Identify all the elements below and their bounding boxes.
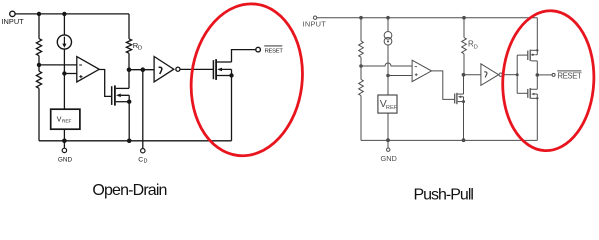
- node: push-pull output junction: [536, 73, 540, 77]
- node: plus input junction (right): [386, 74, 390, 78]
- transistor Q5 (push-pull NMOS): [527, 89, 529, 98]
- VREF box U3 (left): [51, 109, 80, 129]
- svg-text:D: D: [144, 159, 148, 165]
- wire: minus input wire (divider tap to comparator): [39, 64, 77, 66]
- wire: minus input wire with hop over VREF line: [361, 63, 412, 66]
- node: Q3 source/body junction: [462, 100, 465, 103]
- label RESET with overline (right): [557, 70, 581, 72]
- svg-text:GND: GND: [58, 157, 73, 164]
- current source I1 (left, circle with down arrow): [57, 35, 71, 49]
- wire: Q2 drain up to RESET terminal: [232, 50, 256, 62]
- svg-text:REF: REF: [62, 119, 72, 125]
- svg-text:GND: GND: [380, 154, 396, 163]
- wire: current source upper lead: [63, 14, 65, 35]
- node: Q2 source/body junction: [229, 73, 233, 77]
- svg-text:D: D: [138, 46, 142, 52]
- label CD: [138, 156, 147, 164]
- wire: Q4 source up to top rail: [536, 18, 538, 51]
- node: Q5 source/body junction: [536, 97, 538, 99]
- wire: current source to VREF box (right): [387, 45, 389, 95]
- terminal RESET (left): [256, 47, 261, 52]
- wire: gate bus vertical: [516, 55, 518, 93]
- label GND (left): [58, 157, 73, 164]
- wire: inverter output to gate bus: [503, 74, 518, 76]
- node: RD / Q1 drain junction: [127, 67, 132, 72]
- transistor Q4 (push-pull PMOS): [527, 51, 529, 60]
- node: rail/current-source junction: [62, 12, 66, 16]
- wire: divider mid: [38, 56, 40, 71]
- node: rail/divider junction (right): [359, 16, 363, 20]
- resistor RD (left): [126, 39, 131, 53]
- node: Q1 source/body junction: [127, 100, 131, 104]
- node: rail/divider junction: [37, 12, 41, 16]
- node: CD branch junction: [141, 67, 146, 72]
- wire: divider mid (right): [360, 57, 362, 79]
- wire: plus input wire to comparator (right): [388, 75, 412, 77]
- node: GND junction: [62, 139, 67, 144]
- wire: divider lower lead to bottom rail: [38, 88, 40, 141]
- wire: Q1 drain to delay node: [128, 70, 130, 89]
- input terminal INPUT (right): [313, 16, 316, 19]
- wire: divider lower lead to bottom rail (right): [360, 96, 362, 141]
- wire: VREF box to bottom rail: [63, 129, 65, 141]
- resistor R1 (left divider top): [36, 39, 41, 56]
- transistor Q2 (open-drain output NMOS): [212, 60, 214, 79]
- wire: Q3 source to bottom rail: [463, 102, 465, 141]
- wire: Q5 source to bottom rail: [536, 98, 538, 140]
- wire: plus input wire to comparator: [64, 73, 76, 75]
- node: RD / Q3 drain junction (right): [462, 73, 466, 77]
- VREF box U6 (right): [378, 95, 397, 113]
- resistor R3 (right divider top): [359, 41, 364, 57]
- svg-text:RESET: RESET: [265, 48, 284, 54]
- resistor RD (right): [462, 38, 467, 54]
- svg-text:Push-Pull: Push-Pull: [413, 186, 473, 203]
- wire: GND stub (right): [387, 140, 389, 148]
- wire: top rail (left): [15, 13, 129, 15]
- terminal RESET (right): [552, 73, 555, 76]
- wire: bottom rail (left): [39, 140, 232, 142]
- label GND (right): [380, 154, 396, 163]
- resistor R4 (right divider bottom): [359, 79, 364, 95]
- svg-text:Open-Drain: Open-Drain: [92, 182, 166, 199]
- wire: PMOS gate wire: [517, 54, 527, 56]
- op-amp U4 (right comparator): [412, 60, 431, 81]
- svg-text:INPUT: INPUT: [2, 17, 25, 26]
- node: Q1 source rail junction: [127, 139, 132, 144]
- wire: RD upper lead (right): [463, 18, 465, 38]
- svg-text:REF: REF: [386, 105, 398, 111]
- svg-text:C: C: [138, 156, 143, 163]
- node: GND junction (right): [386, 138, 390, 142]
- node: divider tap junction: [37, 63, 41, 67]
- node: rail/RD junction (right): [462, 16, 466, 20]
- wire: VREF box to bottom rail (right): [387, 113, 389, 140]
- red ellipse (left, around open-drain output FET): [183, 0, 311, 162]
- svg-text:INPUT: INPUT: [303, 20, 327, 29]
- wire: current source upper lead (right): [387, 18, 389, 32]
- red ellipse (right, around push-pull output FETs): [499, 8, 597, 153]
- wire: bottom rail (right): [361, 139, 537, 141]
- node: plus input junction: [62, 71, 66, 75]
- node: gate bus junction: [516, 73, 519, 76]
- label RESET with overline (left): [264, 45, 282, 47]
- transistor Q1 (CD discharge NMOS): [111, 86, 113, 105]
- wire: Q4 drain down to output node: [531, 61, 537, 75]
- terminal CD: [141, 149, 145, 153]
- wire: GND stub: [63, 141, 65, 148]
- label INPUT (left): [2, 17, 25, 26]
- wire: RD lower lead to delay node: [128, 53, 130, 69]
- label RD (right): [468, 39, 478, 50]
- wire: Q1 source to bottom rail: [128, 102, 130, 141]
- wire: RD upper lead from top rail: [128, 14, 130, 39]
- wire: top rail (right): [317, 17, 537, 19]
- wire: delay node to inverter input (right): [464, 74, 481, 76]
- svg-text:D: D: [474, 44, 478, 50]
- wire: divider upper lead (right): [360, 18, 362, 41]
- input terminal INPUT (left): [10, 11, 15, 16]
- op-amp U1 (left comparator): [77, 57, 99, 82]
- node: Q3 source rail junction: [462, 138, 466, 142]
- wire: CD branch down to CD terminal: [142, 70, 144, 149]
- wire: comparator output to Q3 gate: [432, 71, 455, 100]
- node: divider tap junction (right): [359, 64, 363, 68]
- wire: comparator output to Q1 gate: [99, 70, 111, 97]
- wire: Q2 source to bottom rail: [231, 76, 233, 141]
- label RD (left): [133, 41, 142, 52]
- resistor R2 (left divider bottom): [36, 71, 41, 88]
- inverter U5 (right, with hysteresis): [481, 64, 499, 86]
- wire: inverter output to Q2 gate: [180, 68, 213, 70]
- wire: current source to VREF box: [63, 49, 65, 109]
- current source I2 (right, double circle with dot): [384, 31, 392, 39]
- node: Q4 source/body junction: [536, 49, 538, 51]
- node: rail/current-source junction (right): [386, 16, 390, 20]
- label INPUT (right): [303, 20, 327, 29]
- terminal GND (right): [387, 148, 390, 151]
- wire: output node to RESET terminal (right): [537, 74, 552, 76]
- inverter U2 (left, with hysteresis): [154, 57, 174, 82]
- wire: Q3 drain to delay node: [463, 75, 465, 94]
- wire: divider upper lead: [38, 14, 40, 39]
- svg-text:RESET: RESET: [557, 72, 582, 81]
- wire: delay node to inverter input: [129, 69, 154, 71]
- transistor Q3 (right discharge NMOS): [454, 94, 456, 104]
- wire: RD lower lead to delay node (right): [463, 54, 465, 75]
- wire: NMOS gate wire: [517, 92, 527, 94]
- terminal GND (left): [62, 148, 66, 152]
